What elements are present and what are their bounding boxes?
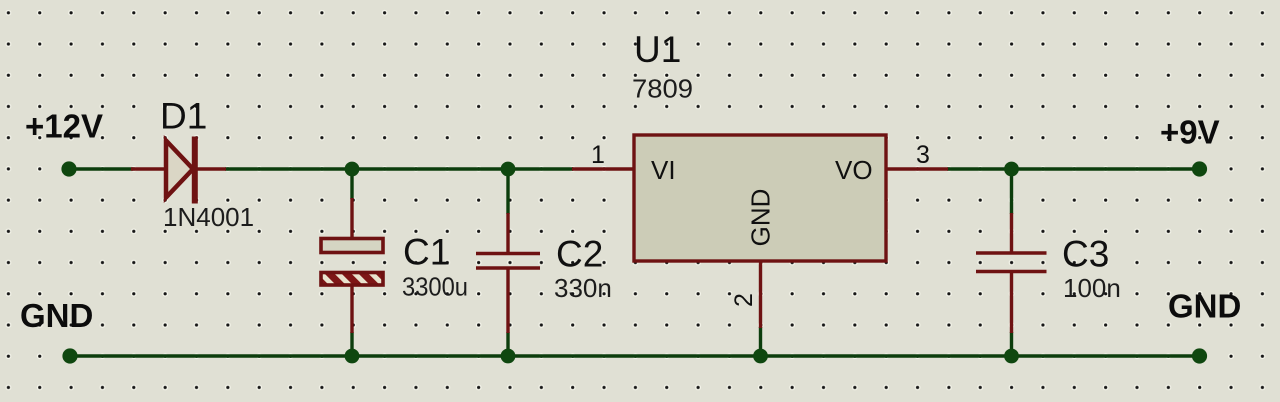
svg-text:1: 1 (591, 141, 605, 169)
svg-text:VI: VI (651, 155, 676, 185)
junction node bottom C1 (345, 349, 360, 364)
wire C3 bottom (1010, 332, 1013, 356)
capacitor C1 bottom pin (350, 286, 353, 333)
pin label GND (rotated) (746, 189, 776, 247)
wire C1 bottom (350, 332, 353, 356)
junction node bottom C2 (501, 349, 516, 364)
svg-text:GND: GND (20, 297, 93, 334)
svg-text:100n: 100n (1063, 273, 1121, 303)
svg-text:2: 2 (730, 293, 758, 307)
svg-text:U1: U1 (634, 29, 681, 70)
svg-text:1N4001: 1N4001 (163, 202, 254, 232)
capacitor C3 top pin (1010, 213, 1013, 253)
junction node bottom U1 pin2 (753, 349, 768, 364)
regulator U1 pin3 wire (885, 167, 948, 170)
junction node top C2 (501, 162, 516, 177)
capacitor C2 bottom pin (506, 268, 509, 333)
capacitor C2 top plate (476, 252, 540, 256)
regulator U1 pin1 wire (572, 167, 635, 170)
junction node top C3 (1004, 162, 1019, 177)
diode D1 cathode lead (197, 167, 226, 170)
capacitor C3 top plate (976, 251, 1047, 255)
svg-text:330n: 330n (554, 273, 612, 303)
terminal node +9V (1192, 161, 1207, 176)
svg-text:+12V: +12V (25, 108, 103, 145)
wire top rail middle segment (225, 167, 573, 170)
regulator U1 body (634, 135, 886, 261)
wire bottom GND rail (70, 354, 1199, 357)
capacitor C2 top pin (506, 213, 509, 253)
svg-text:C3: C3 (1062, 234, 1109, 275)
svg-text:GND: GND (1168, 288, 1241, 325)
regulator U1 pin2 wire (759, 260, 762, 328)
terminal node +12V (61, 161, 76, 176)
wire C3 top (1010, 168, 1013, 214)
diode D1 body (166, 137, 195, 204)
wire top rail left segment (69, 167, 133, 170)
svg-text:C2: C2 (556, 234, 603, 275)
wire U1 pin2 lower (759, 327, 762, 356)
capacitor C3 bottom pin (1010, 271, 1013, 333)
wire top rail right segment (947, 167, 1199, 170)
svg-text:3300u: 3300u (402, 272, 468, 302)
capacitor C1 bottom plate (hatched) (321, 273, 383, 286)
wire C2 top (506, 168, 509, 214)
capacitor C2 bottom plate (476, 266, 540, 270)
terminal node GND left (62, 348, 77, 363)
wire C2 bottom (506, 332, 509, 356)
pin number 2 (rotated) (730, 293, 758, 307)
wire C1 top (350, 168, 353, 199)
svg-text:3: 3 (916, 141, 930, 169)
junction node bottom C3 (1004, 349, 1019, 364)
diode D1 anode lead (131, 167, 165, 170)
svg-text:D1: D1 (160, 96, 207, 137)
terminal node GND right (1192, 348, 1207, 363)
svg-text:GND: GND (746, 189, 776, 247)
svg-text:VO: VO (835, 155, 873, 185)
svg-text:C1: C1 (403, 232, 450, 273)
svg-text:+9V: +9V (1160, 114, 1220, 151)
svg-text:7809: 7809 (632, 74, 693, 104)
capacitor C1 top plate (321, 239, 383, 253)
junction node top C1 (345, 162, 360, 177)
capacitor C3 bottom plate (976, 270, 1047, 274)
capacitor C1 top pin (350, 198, 353, 238)
